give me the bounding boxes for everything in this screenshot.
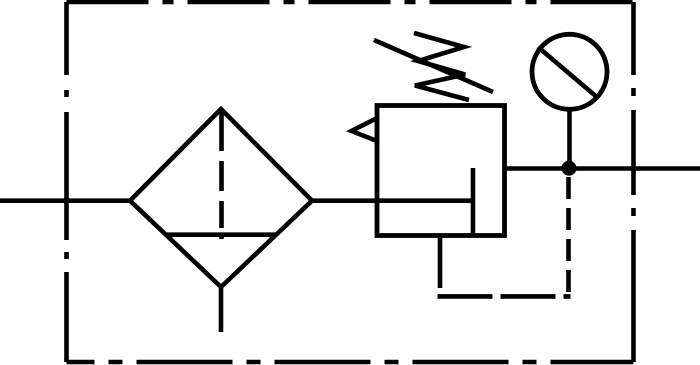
filter F1 separator line (horizontal)	[166, 232, 277, 237]
filter F1 body (diamond)	[130, 109, 312, 287]
enclosure border top (dash-dot)	[67, 0, 634, 4]
filter F1 element (dashed vertical centerline)	[219, 110, 224, 239]
regulator R1 adjustment arrow (diagonal through spring)	[374, 40, 493, 92]
enclosure border bottom (dash-dot)	[67, 360, 634, 365]
junction node (outlet / gauge / pilot)	[562, 161, 577, 176]
enclosure border left (dash-dot)	[64, 2, 69, 362]
gauge G1 body (circle)	[532, 34, 607, 109]
enclosure border right (dash-dot)	[631, 2, 636, 362]
wire: inlet port line	[0, 198, 130, 203]
wire: filter to regulator	[312, 198, 473, 203]
regulator R1 body (square)	[377, 106, 505, 236]
filter F1 drain line	[219, 287, 224, 332]
pilot line: dashed vertical return to junction	[566, 177, 571, 296]
gauge G1 needle (diagonal)	[538, 47, 598, 98]
regulator R1 relief arrow (triangle on left edge)	[352, 118, 378, 141]
wire: outlet line	[505, 166, 700, 171]
regulator R1 internal riser	[471, 168, 476, 234]
regulator R1 adjustment spring (zigzag)	[414, 33, 469, 100]
pilot line: solid drop below regulator	[438, 236, 443, 289]
gauge G1 stem	[567, 111, 572, 169]
pilot line: dashed horizontal run	[438, 294, 571, 299]
